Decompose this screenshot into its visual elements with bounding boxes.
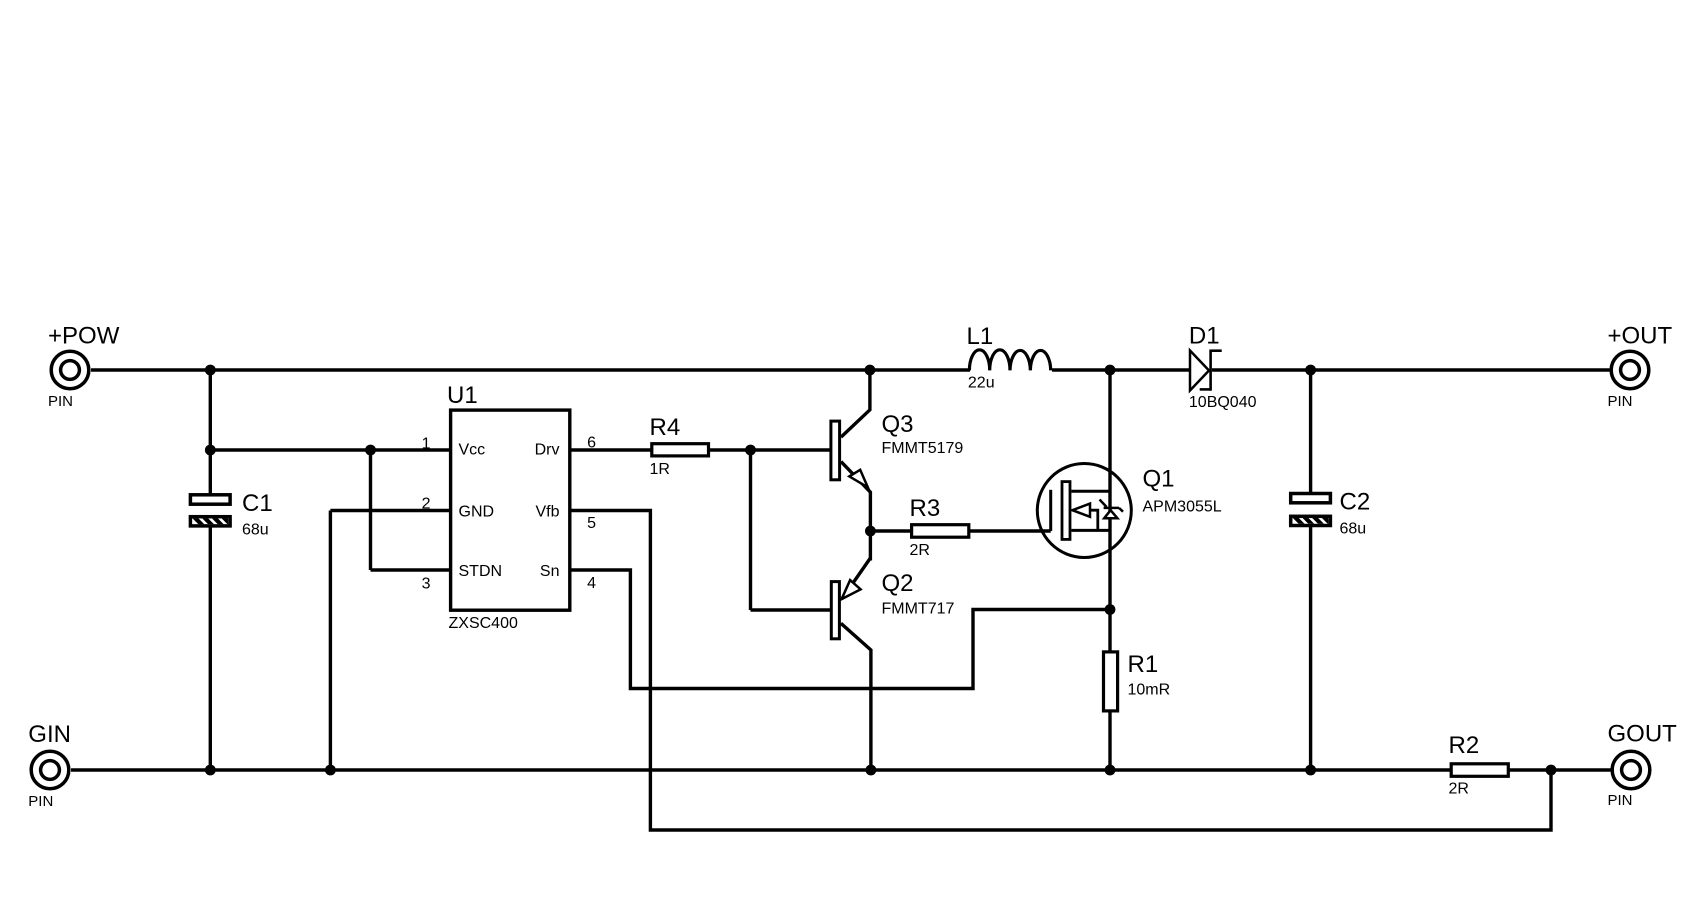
node emitters/R3	[865, 526, 876, 537]
wire +POW drop to Vcc rail	[209, 370, 212, 450]
capacitor C2	[1291, 494, 1344, 527]
node L1/D1/drain	[1105, 365, 1116, 376]
wire U1 pin 4 Sn path	[570, 570, 1110, 689]
node Vcc rail STDN branch	[365, 445, 376, 456]
svg-text:+OUT: +OUT	[1608, 323, 1673, 350]
wire R4 to Q3 base	[707, 448, 831, 451]
node Q2 collector/bottom rail	[866, 765, 877, 776]
wire Vcc rail to U1 pin 1	[210, 448, 450, 451]
svg-text:STDN: STDN	[459, 563, 503, 580]
wire drive drop to Q2 base	[749, 450, 752, 610]
wire U1 pin 6 to R4	[570, 448, 655, 451]
svg-text:1R: 1R	[650, 461, 670, 478]
svg-text:FMMT5179: FMMT5179	[882, 440, 964, 457]
svg-text:2: 2	[422, 496, 431, 513]
svg-text:Q3: Q3	[882, 411, 914, 438]
node R1/bottom rail	[1105, 765, 1116, 776]
svg-text:Sn: Sn	[540, 563, 560, 580]
wire U1 pin 5 Vfb feedback path	[570, 511, 1551, 831]
node R4/drive	[745, 445, 756, 456]
svg-text:R1: R1	[1128, 651, 1159, 678]
wire Q2 emitter	[842, 558, 870, 599]
svg-text:Q2: Q2	[882, 570, 914, 597]
svg-text:2R: 2R	[910, 542, 930, 559]
svg-text:C1: C1	[242, 490, 273, 517]
wire C1 top lead	[209, 450, 212, 494]
node +POW/top rail	[205, 365, 216, 376]
wire top rail D1 to +OUT	[1212, 368, 1610, 371]
svg-text:68u: 68u	[1340, 521, 1367, 538]
node R2/feedback	[1546, 765, 1557, 776]
node Vcc rail left	[205, 445, 216, 456]
IC U1 ZXSC400	[451, 410, 570, 610]
wire R1 bottom lead	[1108, 712, 1111, 770]
svg-text:GIN: GIN	[28, 721, 71, 748]
svg-text:D1: D1	[1189, 323, 1220, 350]
svg-text:10BQ040: 10BQ040	[1189, 394, 1257, 411]
transistor Q3 FMMT5179	[831, 421, 868, 487]
inductor L1	[969, 350, 1050, 371]
resistor R3	[912, 525, 969, 538]
node source/R1/Sn	[1105, 604, 1116, 615]
wire Q3 collector	[841, 370, 870, 437]
svg-text:PIN: PIN	[48, 393, 73, 410]
wire STDN branch to U1 pin 3	[371, 568, 451, 571]
svg-text:PIN: PIN	[1608, 792, 1633, 809]
wire to Q2 base	[751, 608, 832, 611]
svg-text:5: 5	[587, 515, 596, 532]
svg-text:GOUT: GOUT	[1608, 721, 1678, 748]
wire C2 bottom lead	[1309, 526, 1312, 770]
svg-text:68u: 68u	[242, 522, 269, 539]
svg-text:Vcc: Vcc	[459, 442, 486, 459]
wire C1 bottom lead	[209, 527, 212, 771]
svg-text:10mR: 10mR	[1128, 682, 1171, 699]
svg-text:PIN: PIN	[28, 793, 53, 810]
node C2/bottom rail	[1305, 765, 1316, 776]
svg-text:ZXSC400: ZXSC400	[449, 615, 518, 632]
transistor Q2 FMMT717	[831, 580, 860, 639]
wire Q1 drain vertical	[1108, 370, 1111, 651]
diode D1 10BQ040	[1190, 350, 1222, 391]
svg-text:R4: R4	[650, 414, 681, 441]
svg-text:R2: R2	[1449, 732, 1480, 759]
resistor R2	[1451, 764, 1508, 777]
wire top rail L1 to D1	[1052, 368, 1189, 371]
node C1/bottom rail	[205, 765, 216, 776]
node Q3 collector/top rail	[865, 365, 876, 376]
svg-text:U1: U1	[447, 382, 478, 409]
capacitor C1	[190, 495, 243, 527]
svg-text:GND: GND	[459, 504, 495, 521]
wire GND pin 2 drop to bottom rail	[329, 511, 332, 771]
port GOUT	[1612, 751, 1650, 789]
wire STDN branch vertical	[369, 450, 372, 570]
node D1/C2	[1305, 365, 1316, 376]
wire top rail +POW to L1	[91, 368, 970, 371]
svg-text:22u: 22u	[968, 374, 995, 391]
svg-text:R3: R3	[910, 495, 941, 522]
svg-text:2R: 2R	[1449, 781, 1469, 798]
port +OUT	[1611, 351, 1649, 389]
wire emitter node to R3	[870, 529, 913, 532]
svg-text:4: 4	[587, 575, 596, 592]
svg-text:C2: C2	[1340, 489, 1371, 516]
junction node dots	[205, 365, 1557, 776]
svg-text:6: 6	[587, 434, 596, 451]
port +POW	[51, 351, 89, 389]
svg-text:+POW: +POW	[48, 323, 120, 350]
wire C2 top lead	[1309, 370, 1312, 493]
resistor R4	[652, 444, 709, 456]
svg-text:FMMT717: FMMT717	[882, 601, 955, 618]
port GIN	[31, 751, 69, 789]
svg-text:PIN: PIN	[1608, 393, 1633, 410]
wire R2 to GOUT	[1509, 768, 1611, 771]
svg-text:L1: L1	[967, 323, 994, 350]
svg-text:1: 1	[422, 436, 431, 453]
wire Q2 collector	[841, 623, 871, 770]
node GND/bottom rail	[325, 765, 336, 776]
wire GND pin 2 horizontal	[330, 509, 450, 512]
svg-text:Vfb: Vfb	[535, 504, 559, 521]
wire Q3 emitter	[841, 462, 870, 561]
svg-text:APM3055L: APM3055L	[1143, 499, 1222, 516]
wire R3 to Q1 gate	[968, 529, 1051, 532]
mosfet Q1 APM3055L	[1037, 464, 1131, 558]
svg-text:Q1: Q1	[1143, 466, 1175, 493]
wire bottom rail GIN to R2	[71, 768, 1451, 771]
resistor R1	[1104, 652, 1118, 711]
svg-text:Drv: Drv	[535, 442, 560, 459]
svg-text:3: 3	[422, 576, 431, 593]
